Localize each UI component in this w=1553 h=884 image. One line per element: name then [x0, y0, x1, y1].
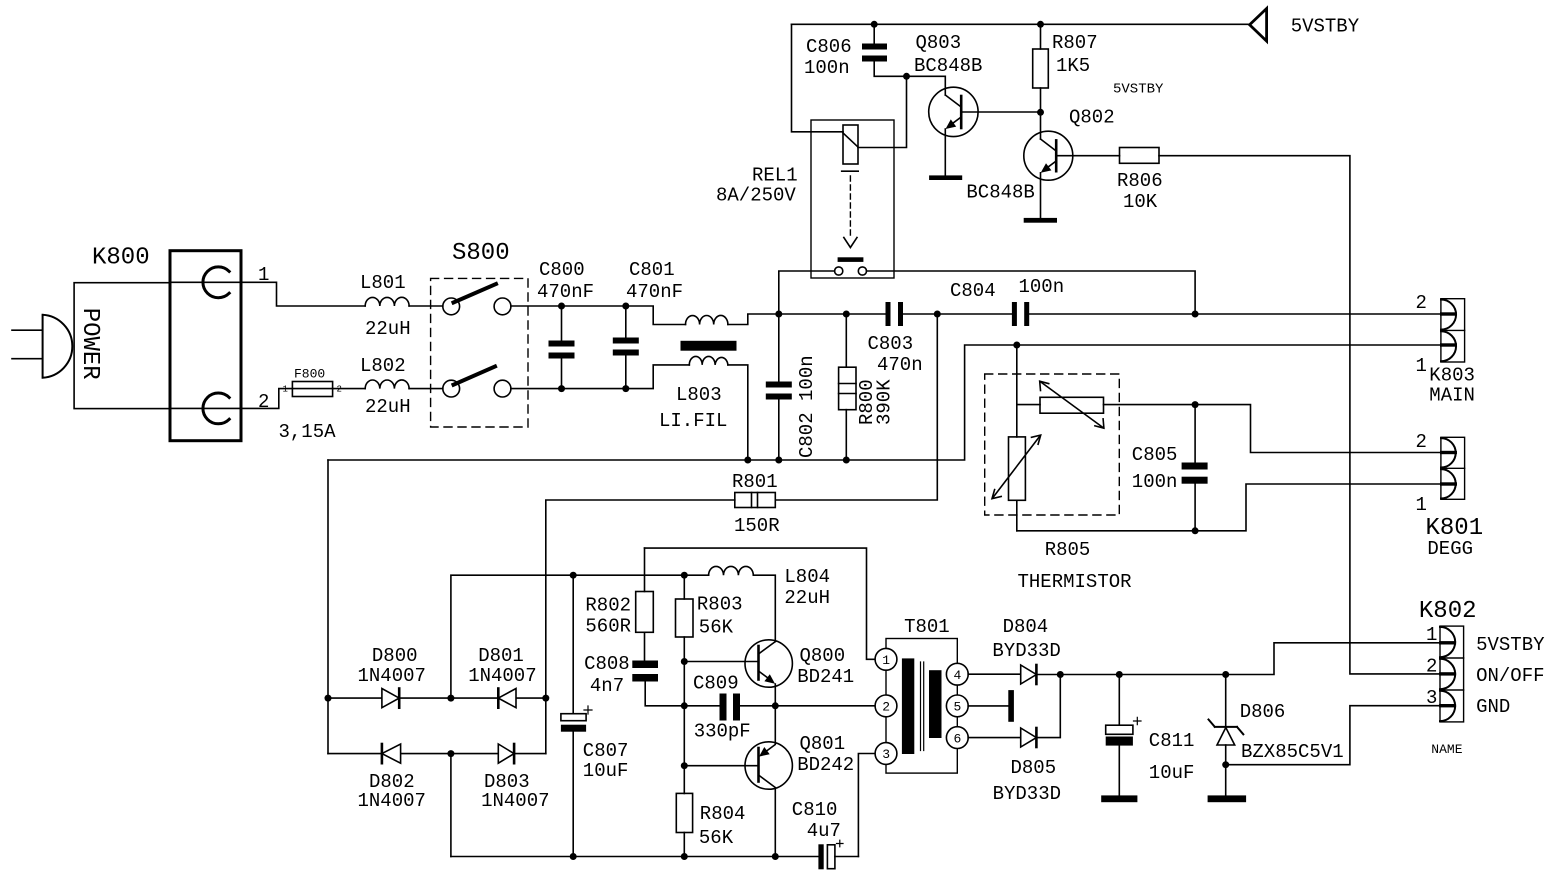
svg-text:56K: 56K: [699, 617, 734, 639]
svg-text:R804: R804: [700, 803, 746, 825]
svg-text:4: 4: [954, 668, 962, 683]
svg-text:ON/OFF: ON/OFF: [1476, 665, 1544, 687]
svg-text:22uH: 22uH: [365, 396, 411, 418]
transistor Q801 BD242: [684, 706, 854, 857]
thermistor R805 (dashed box): [985, 374, 1132, 593]
svg-text:T801: T801: [904, 616, 950, 638]
svg-text:R802: R802: [585, 595, 631, 617]
svg-text:10K: 10K: [1123, 191, 1158, 213]
wire T801 pin5 to terminator: [968, 705, 1008, 707]
svg-text:R801: R801: [732, 471, 778, 493]
svg-text:3,15A: 3,15A: [279, 421, 337, 443]
svg-text:Q802: Q802: [1069, 107, 1115, 129]
svg-text:150R: 150R: [734, 515, 780, 537]
wire 5VSTBY rail to relay coil left: [792, 24, 844, 132]
wire C810 up to T801 pin3: [858, 754, 875, 857]
svg-text:BYD33D: BYD33D: [993, 783, 1061, 805]
svg-text:C809: C809: [693, 673, 739, 695]
T801 pin 6: [946, 727, 968, 749]
svg-text:Q801: Q801: [800, 733, 846, 755]
svg-text:2: 2: [882, 700, 890, 715]
zener diode D806 BZX85C5V1: [1209, 675, 1344, 796]
wire C803 to C804: [903, 313, 1012, 315]
inductor L804 22uH: [709, 566, 830, 642]
svg-text:R803: R803: [697, 594, 743, 616]
svg-text:4u7: 4u7: [807, 820, 841, 842]
svg-text:D806: D806: [1240, 701, 1286, 723]
connector K801 DEGG: [1416, 431, 1484, 560]
inductor L801 22uH: [360, 272, 411, 340]
wire AC rail to R801: [775, 314, 937, 500]
svg-text:5: 5: [954, 700, 962, 715]
svg-text:3: 3: [882, 747, 890, 762]
wire relay left contact to AC rail junction: [779, 271, 835, 314]
switch S800 top pole: [443, 284, 511, 315]
fuse F800: [279, 367, 342, 444]
wire thermistor lower to C805 bottom node: [1017, 530, 1195, 532]
wire T801 pin4 to D804: [968, 673, 1021, 675]
svg-text:C800: C800: [539, 259, 585, 281]
svg-text:R805: R805: [1045, 539, 1091, 561]
svg-text:5VSTBY: 5VSTBY: [1476, 634, 1545, 656]
svg-text:R806: R806: [1117, 170, 1163, 192]
svg-text:470nF: 470nF: [626, 281, 683, 303]
wire C805 node to K801 pin2: [1195, 405, 1441, 453]
connector K800: [74, 245, 241, 441]
svg-text:L804: L804: [784, 566, 830, 588]
capacitor C802 100n: [766, 314, 818, 460]
svg-text:POWER: POWER: [76, 308, 103, 380]
svg-text:560R: 560R: [585, 616, 631, 638]
svg-text:22uH: 22uH: [365, 318, 411, 340]
capacitor C811 10uF: [1106, 675, 1195, 796]
wire K802 GND to D806 node: [1226, 706, 1441, 765]
capacitor C808 4n7: [584, 653, 684, 706]
svg-text:K800: K800: [92, 245, 150, 272]
wire Q800/Q801 node to T801 pin2: [775, 705, 875, 707]
svg-text:1: 1: [1416, 494, 1427, 516]
wire K800 pin2 to F800: [170, 389, 293, 413]
5VSTBY net flag: [1250, 9, 1360, 42]
svg-text:8A/250V: 8A/250V: [716, 185, 796, 207]
svg-text:100n: 100n: [804, 57, 850, 79]
wire S800 to C800/C801 top: [511, 305, 626, 307]
ground (D806): [1208, 795, 1247, 802]
svg-text:BZX85C5V1: BZX85C5V1: [1241, 741, 1344, 763]
transistor Q800 BD241: [684, 640, 854, 706]
svg-text:2: 2: [1416, 431, 1427, 453]
svg-text:C805: C805: [1132, 444, 1178, 466]
wire S800 to C800/C801 bottom: [511, 388, 626, 390]
svg-text:REL1: REL1: [752, 165, 798, 187]
wire C804 to K803 pin2: [1029, 313, 1441, 315]
diode D805 BYD33D: [993, 675, 1061, 806]
ground (C811): [1101, 795, 1137, 802]
switch S800 bottom pole: [443, 367, 511, 398]
wire thermistor upper to C805 node: [1104, 404, 1196, 406]
connector K802: [1419, 598, 1545, 757]
svg-text:L803: L803: [676, 384, 722, 406]
bridge diode D801 1N4007: [451, 645, 546, 708]
svg-text:D805: D805: [1011, 757, 1057, 779]
svg-text:THERMISTOR: THERMISTOR: [1018, 571, 1132, 593]
svg-text:10uF: 10uF: [583, 760, 629, 782]
capacitor C803 470n (series): [868, 302, 923, 376]
svg-text:1K5: 1K5: [1056, 55, 1090, 77]
svg-text:C810: C810: [792, 799, 838, 821]
capacitor C801 470nF: [613, 259, 683, 389]
svg-text:1N4007: 1N4007: [481, 790, 549, 812]
svg-text:390K: 390K: [874, 379, 896, 425]
svg-text:6: 6: [954, 731, 962, 746]
svg-text:1N4007: 1N4007: [468, 665, 536, 687]
svg-text:100n: 100n: [1132, 471, 1178, 493]
svg-text:C804: C804: [950, 280, 996, 302]
thermistor lower element (vertical): [992, 405, 1041, 531]
capacitor C804 100n (series): [950, 276, 1064, 326]
switch S800 (dashed box): [431, 240, 528, 427]
svg-text:3: 3: [1426, 687, 1437, 709]
svg-text:K803: K803: [1429, 365, 1475, 387]
svg-text:K802: K802: [1419, 598, 1477, 625]
svg-text:C801: C801: [629, 259, 675, 281]
diode D804 BYD33D: [992, 616, 1060, 684]
svg-text:BD241: BD241: [797, 666, 854, 688]
DC bottom rail: [451, 856, 819, 858]
connector K803 MAIN: [1416, 292, 1475, 407]
svg-text:D804: D804: [1003, 616, 1049, 638]
svg-text:1N4007: 1N4007: [358, 790, 426, 812]
svg-text:C808: C808: [584, 653, 630, 675]
svg-text:MAIN: MAIN: [1429, 385, 1475, 407]
svg-text:GND: GND: [1476, 696, 1510, 718]
capacitor C807 10uF: [561, 575, 629, 856]
resistor R802 560R: [585, 548, 653, 660]
svg-text:330pF: 330pF: [694, 721, 751, 743]
bridge diode D802 1N4007: [328, 744, 451, 812]
line filter L803 LI.FIL: [659, 315, 737, 432]
wire bridge DC- node down to DC bottom rail: [450, 754, 452, 857]
svg-text:1: 1: [258, 264, 269, 286]
wire R806 to K802 ON/OFF: [1159, 156, 1441, 674]
svg-text:BC848B: BC848B: [966, 182, 1034, 204]
svg-text:5VSTBY: 5VSTBY: [1291, 16, 1360, 38]
drive line (R802 top to T801 pin1): [645, 548, 876, 659]
svg-text:22uH: 22uH: [784, 587, 830, 609]
svg-text:L802: L802: [360, 355, 406, 377]
5VSTBY top rail: [792, 23, 1250, 25]
svg-text:Q803: Q803: [916, 32, 962, 54]
thermistor upper element (horizontal): [1040, 381, 1104, 428]
T801 pin 4: [946, 663, 968, 685]
svg-text:56K: 56K: [699, 827, 734, 849]
capacitor C805 100n: [1132, 405, 1208, 531]
svg-text:C803: C803: [868, 333, 914, 355]
svg-text:C806: C806: [806, 36, 852, 58]
wire K800 pin1 to L801: [170, 264, 366, 306]
transformer T801: [886, 616, 957, 773]
transistor Q803 BC848B: [907, 32, 1041, 175]
wire R801 to bridge right node: [546, 500, 735, 754]
wire C801 to L803 top: [626, 306, 686, 325]
svg-text:5VSTBY: 5VSTBY: [1113, 82, 1164, 98]
wire K803 pin1 line to thermistor: [1017, 345, 1040, 405]
svg-text:1: 1: [1416, 355, 1427, 377]
svg-text:D801: D801: [478, 645, 524, 667]
wire relay right contact to K803 pin2 line: [867, 271, 1196, 314]
capacitor C809 330pF: [684, 673, 775, 743]
svg-text:10uF: 10uF: [1149, 762, 1195, 784]
svg-text:DEGG: DEGG: [1427, 538, 1473, 560]
transistor Q802 BC848B: [966, 107, 1119, 218]
capacitor C800 470nF: [537, 259, 594, 389]
svg-text:C802 100n: C802 100n: [796, 355, 818, 458]
T801 pin 3: [875, 743, 897, 765]
wire L803 bottom down to AC bottom rail: [728, 365, 748, 460]
capacitor C810 4u7: [792, 799, 859, 869]
svg-text:2: 2: [1426, 656, 1437, 678]
wire C805 bottom node to K801 pin1: [1195, 484, 1441, 531]
svg-text:R807: R807: [1052, 32, 1098, 54]
wire bridge DC+ node up to DC rail: [451, 575, 709, 698]
resistor R804 56K: [676, 793, 745, 856]
bridge diode D800 1N4007: [328, 645, 451, 708]
svg-text:2: 2: [337, 385, 342, 395]
svg-text:LI.FIL: LI.FIL: [659, 410, 727, 432]
output rail to K802 5VSTBY: [1060, 643, 1441, 675]
T801 pin5 stub terminator: [1008, 690, 1014, 722]
wire C801 to L803 bottom: [626, 365, 690, 389]
resistor R801 150R: [732, 471, 780, 537]
svg-text:2: 2: [1416, 292, 1427, 314]
wire T801 pin6 to D805: [968, 737, 1021, 739]
wire F800 to L802: [333, 388, 366, 390]
svg-text:Q800: Q800: [800, 645, 846, 667]
svg-text:1: 1: [283, 385, 288, 395]
svg-text:C807: C807: [583, 740, 629, 762]
capacitor C806 100n: [804, 24, 907, 79]
base bus (R803 bottom through junctions to R804 top): [683, 662, 685, 794]
resistor R807 1K5: [1033, 24, 1098, 112]
svg-text:1: 1: [1426, 624, 1437, 646]
svg-text:S800: S800: [452, 240, 510, 267]
resistor R800 390K: [839, 314, 896, 460]
ground (Q802 emitter): [1024, 218, 1057, 223]
wire L803 top to AC rail: [728, 314, 886, 325]
relay REL1 8A/250V: [716, 120, 894, 278]
wire L802 to S800: [409, 388, 443, 390]
resistor R803 56K: [676, 575, 743, 661]
svg-text:100n: 100n: [1019, 276, 1065, 298]
svg-text:BC848B: BC848B: [914, 55, 982, 77]
svg-text:2: 2: [258, 391, 269, 413]
AC bottom rail: [328, 345, 1441, 460]
ground (Q803 emitter): [929, 175, 962, 180]
svg-text:F800: F800: [294, 367, 325, 382]
T801 pin 2: [875, 695, 897, 717]
bridge diode D803 1N4007: [451, 744, 550, 812]
wire L801 to S800: [409, 305, 443, 307]
resistor R806 10K: [1117, 148, 1163, 214]
T801 pin 1: [875, 648, 897, 670]
svg-text:4n7: 4n7: [590, 675, 624, 697]
svg-text:470n: 470n: [877, 354, 923, 376]
svg-text:470nF: 470nF: [537, 281, 594, 303]
svg-text:1N4007: 1N4007: [358, 665, 426, 687]
svg-text:NAME: NAME: [1431, 742, 1462, 757]
wire relay coil right to C806 node: [858, 76, 907, 147]
T801 pin 5: [946, 695, 968, 717]
svg-text:C811: C811: [1149, 730, 1195, 752]
svg-text:1: 1: [882, 653, 890, 668]
inductor L802 22uH: [360, 355, 411, 418]
svg-text:BD242: BD242: [797, 754, 854, 776]
svg-text:BYD33D: BYD33D: [992, 640, 1060, 662]
svg-text:L801: L801: [360, 272, 406, 294]
power plug: [12, 315, 72, 378]
wire AC bottom rail down to bridge left node: [327, 460, 329, 754]
svg-text:D800: D800: [372, 645, 418, 667]
